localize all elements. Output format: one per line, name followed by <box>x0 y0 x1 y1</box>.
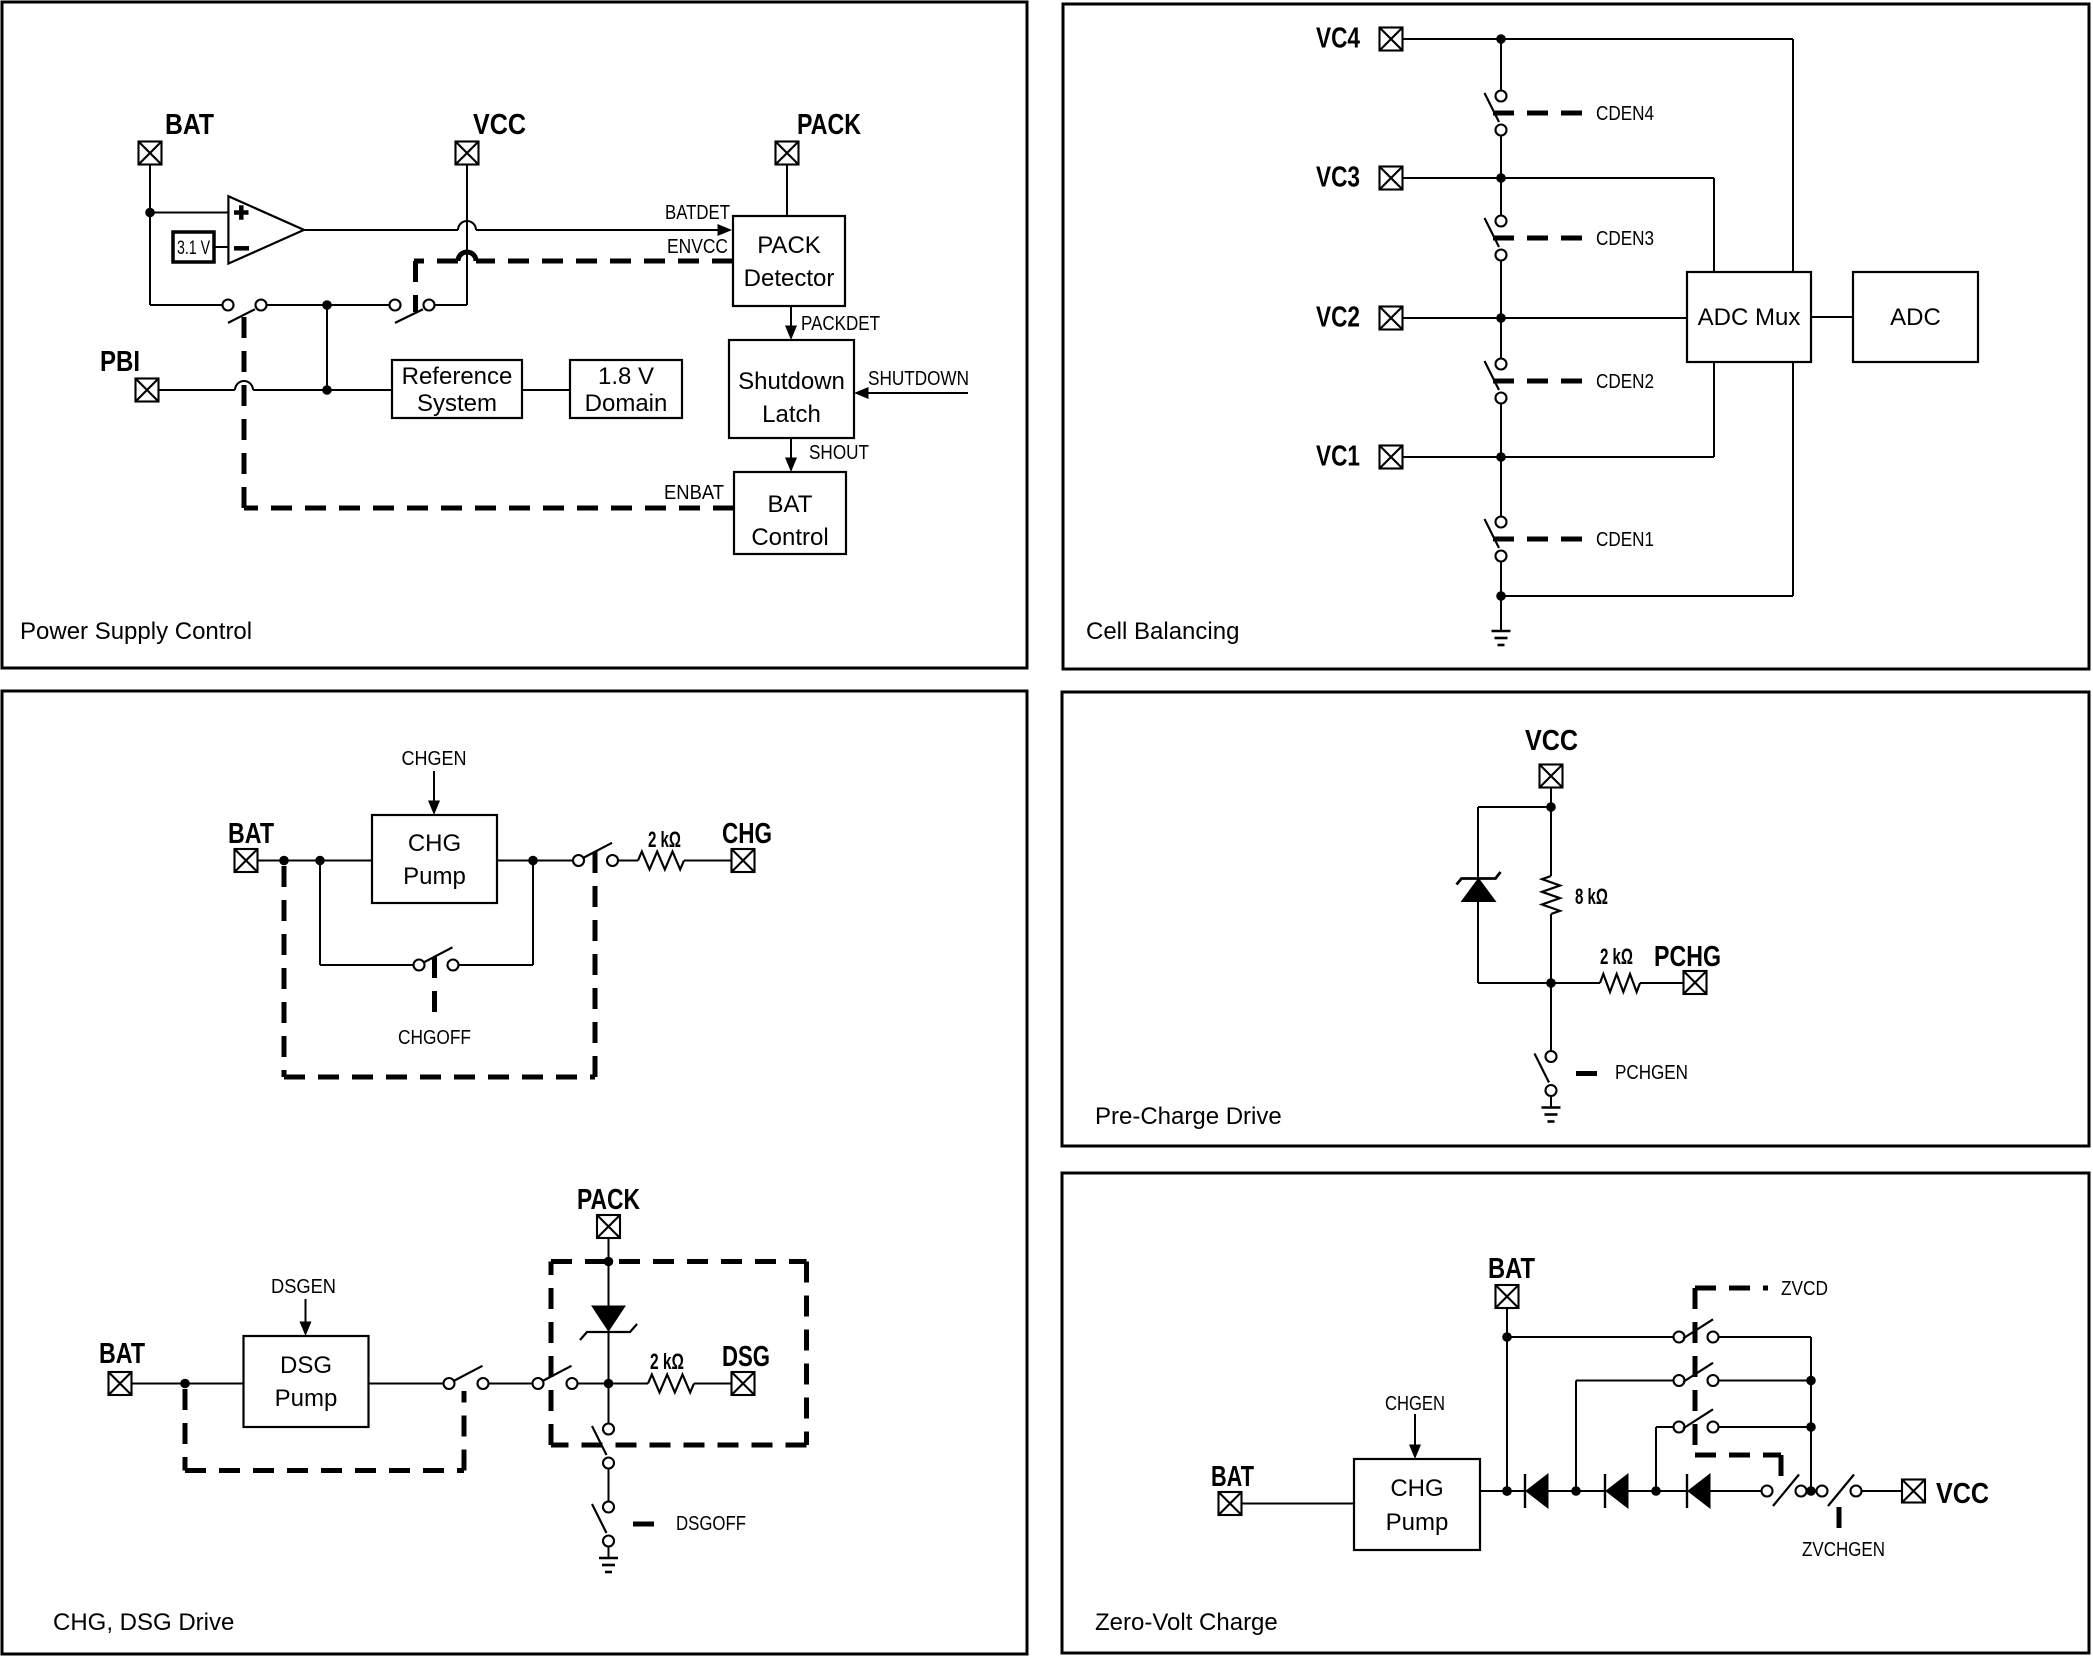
svg-text:Cell Balancing: Cell Balancing <box>1086 618 1239 645</box>
svg-text:3.1 V: 3.1 V <box>177 238 210 259</box>
svg-text:ENVCC: ENVCC <box>667 236 728 258</box>
svg-text:BAT: BAT <box>228 818 274 850</box>
svg-text:2 kΩ: 2 kΩ <box>1600 944 1633 969</box>
svg-text:BAT: BAT <box>1211 1461 1254 1493</box>
svg-text:DSG: DSG <box>280 1352 332 1379</box>
svg-text:BAT: BAT <box>99 1338 145 1370</box>
svg-text:PACK: PACK <box>757 232 821 259</box>
svg-text:8 kΩ: 8 kΩ <box>1575 884 1608 909</box>
svg-text:DSG: DSG <box>722 1341 770 1373</box>
svg-text:Latch: Latch <box>762 401 821 428</box>
svg-text:Reference: Reference <box>402 363 513 390</box>
svg-text:ZVCHGEN: ZVCHGEN <box>1802 1539 1885 1561</box>
svg-text:VC1: VC1 <box>1316 441 1360 473</box>
svg-text:ADC: ADC <box>1890 304 1941 331</box>
svg-text:Power Supply Control: Power Supply Control <box>20 618 252 645</box>
svg-text:Domain: Domain <box>585 390 668 417</box>
svg-text:CHGOFF: CHGOFF <box>398 1027 471 1049</box>
svg-text:VC2: VC2 <box>1316 302 1360 334</box>
svg-text:BAT: BAT <box>768 491 813 518</box>
svg-text:SHOUT: SHOUT <box>809 442 869 464</box>
svg-text:CHG: CHG <box>408 830 461 857</box>
svg-text:Shutdown: Shutdown <box>738 368 845 395</box>
svg-text:CHGEN: CHGEN <box>1385 1393 1445 1415</box>
svg-text:PACK: PACK <box>577 1184 640 1216</box>
svg-text:CDEN1: CDEN1 <box>1596 529 1654 551</box>
svg-text:System: System <box>417 390 497 417</box>
svg-text:VC3: VC3 <box>1316 162 1360 194</box>
svg-text:Pre-Charge Drive: Pre-Charge Drive <box>1095 1103 1282 1130</box>
svg-text:PCHGEN: PCHGEN <box>1615 1062 1688 1084</box>
svg-text:VC4: VC4 <box>1316 23 1360 55</box>
svg-text:DSGOFF: DSGOFF <box>676 1513 746 1535</box>
svg-text:VCC: VCC <box>1525 725 1578 757</box>
svg-text:CHG: CHG <box>722 818 772 850</box>
svg-text:Zero-Volt Charge: Zero-Volt Charge <box>1095 1609 1278 1636</box>
svg-text:CDEN2: CDEN2 <box>1596 371 1654 393</box>
svg-text:SHUTDOWN: SHUTDOWN <box>868 368 969 390</box>
svg-text:PCHG: PCHG <box>1654 941 1721 973</box>
svg-text:CDEN4: CDEN4 <box>1596 103 1654 125</box>
svg-text:Detector: Detector <box>744 265 835 292</box>
svg-text:Pump: Pump <box>275 1385 338 1412</box>
svg-text:Pump: Pump <box>1386 1509 1449 1536</box>
svg-text:Control: Control <box>751 524 828 551</box>
svg-text:PACK: PACK <box>797 109 861 141</box>
svg-text:BAT: BAT <box>1488 1253 1535 1285</box>
svg-text:2 kΩ: 2 kΩ <box>650 1349 684 1374</box>
svg-text:PBI: PBI <box>100 346 140 378</box>
svg-text:VCC: VCC <box>1936 1478 1989 1510</box>
svg-text:CDEN3: CDEN3 <box>1596 228 1654 250</box>
svg-text:VCC: VCC <box>473 109 526 141</box>
svg-text:ADC Mux: ADC Mux <box>1698 304 1801 331</box>
svg-text:CHG, DSG Drive: CHG, DSG Drive <box>53 1609 234 1636</box>
svg-text:DSGEN: DSGEN <box>271 1276 336 1298</box>
svg-text:ZVCD: ZVCD <box>1781 1278 1828 1300</box>
svg-text:CHGEN: CHGEN <box>402 748 467 770</box>
svg-text:1.8 V: 1.8 V <box>598 363 654 390</box>
svg-text:CHG: CHG <box>1390 1475 1443 1502</box>
svg-text:BATDET: BATDET <box>665 202 730 224</box>
svg-text:Pump: Pump <box>403 863 466 890</box>
svg-text:2 kΩ: 2 kΩ <box>648 827 681 852</box>
svg-text:ENBAT: ENBAT <box>664 482 724 504</box>
svg-text:PACKDET: PACKDET <box>801 313 880 335</box>
svg-text:BAT: BAT <box>165 109 214 141</box>
